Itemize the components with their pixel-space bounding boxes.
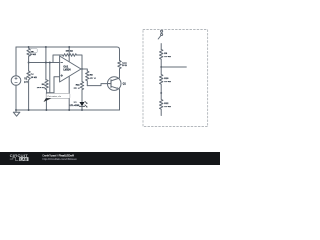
feedback resistor R5 with leads [53,54,82,69]
value label R8 287 Ohm [90,74,96,79]
ground [13,110,20,116]
wire output to indicator branch [81,69,83,82]
footer bar [0,152,220,165]
resistor R10 [160,67,163,93]
resistor R2 [27,71,30,110]
node op-amp output [81,68,83,70]
photoresistor R1 [27,47,30,71]
value label Rled 10 Ohm [122,63,127,67]
wire noninverting input [54,77,60,93]
collector resistor Rled [118,61,121,70]
wire pot branch B [49,63,51,93]
node divider tap R1/R2 [28,62,30,64]
svg-text:DarthTyrael / FinalLEDoff: DarthTyrael / FinalLEDoff [43,153,74,157]
wire R6 bottom to ground rail [46,93,54,110]
resistor R11 [80,82,83,103]
value label V1 9 V [24,78,28,84]
wire bottom ground rail [16,109,120,111]
wire left rail to V1 [15,47,17,76]
node R2 at ground rail [28,109,30,111]
svg-text:OA1: OA1 [63,65,68,68]
node V- pin at ground rail [68,109,70,111]
voltage source V1 [11,76,21,86]
svg-text:LAB: LAB [20,157,27,161]
wire SW1 to R9 [160,44,162,50]
op-amp noninverting pin mark [61,75,63,77]
node chain tap junction [160,66,162,68]
value label R12 3.3 kOhm [164,103,171,108]
LED D1 [79,102,84,110]
svg-text:16.9 kΩ: 16.9 kΩ [37,87,45,89]
svg-text:http://circuitlab.com/c6kkwux: http://circuitlab.com/c6kkwux [43,157,78,161]
node pot branch on input wire [49,62,51,64]
svg-text:3.3 kΩ: 3.3 kΩ [164,106,171,108]
potentiometer resistor R6 [45,80,48,93]
svg-text:10 kΩ: 10 kΩ [30,54,36,56]
svg-text:287 Ω: 287 Ω [90,78,96,80]
wire V+ top rail [16,47,120,61]
resistor R9 [160,49,163,67]
svg-text:587 Ω: 587 Ω [74,88,80,90]
wire V1 to ground rail [15,85,17,110]
node mid branch top [45,46,47,48]
svg-text:3.3 kΩ: 3.3 kΩ [164,56,171,58]
node R1 top junction [28,46,30,48]
svg-text:LM324: LM324 [63,68,71,71]
node D1 at ground rail [81,109,83,111]
value label R6 16.9 kOhm [37,84,46,89]
op-amp V+ power pin [68,47,70,62]
wire inverting input [29,62,60,64]
value label R9 3.3 kOhm [164,53,171,58]
resistor R12 [160,93,163,116]
switch SW1 [158,30,162,39]
value label R2 10 kOhm [31,74,37,79]
node V+ pin at top rail [68,46,70,48]
wire base of Q1 [87,84,107,86]
value label R11 587 Ohm [74,84,81,89]
op-amp OA1 triangle [60,56,81,82]
value label R10 3.3 kOhm [164,78,171,83]
CircuitLab logo [10,153,29,162]
transistor Q1 [107,70,121,111]
svg-text:LTL-4233: LTL-4233 [70,104,80,107]
dashed subcircuit box [143,30,208,127]
node R10/R12 junction [160,92,162,94]
resistor R8 [86,71,89,86]
svg-text:3.3 kΩ: 3.3 kΩ [164,81,171,83]
annotation note box "Pot meter" [44,93,70,102]
value label D1 LTL-4233 [70,102,80,108]
wire output to base resistor [81,69,87,71]
node mid branch on input wire [45,62,47,64]
svg-text:9 V: 9 V [24,81,28,84]
node R6 at ground rail [45,109,47,111]
node V1 at ground rail [15,109,17,111]
op-amp V- power pin [68,77,70,111]
label OA1 LM324 [63,65,71,71]
wire mid branch from V+ rail [45,47,47,80]
op-amp inverting pin mark [61,62,63,64]
svg-text:Pot meter, clo: Pot meter, clo [48,95,62,98]
photoresistor R1 body box [31,49,38,53]
LED D1 emission arrows [85,101,88,107]
svg-text:10 kΩ: 10 kΩ [31,77,37,79]
svg-text:10 Ω: 10 Ω [122,65,127,67]
wire chain tap stub [161,66,186,68]
